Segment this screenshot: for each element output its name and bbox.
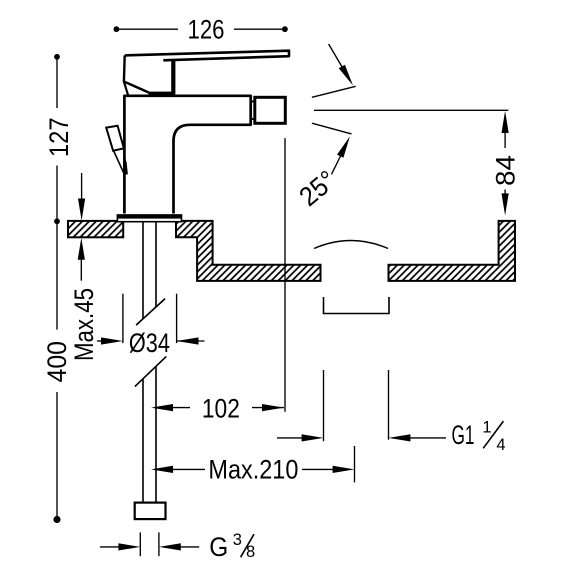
- dimension Max.210: [155, 446, 355, 483]
- svg-text:8: 8: [246, 543, 255, 561]
- svg-text:400: 400: [42, 341, 72, 383]
- right deck step profile hatched: [176, 221, 321, 281]
- svg-text:84: 84: [491, 155, 521, 186]
- arrow to lower spray line: [332, 153, 343, 174]
- right bowl band and column hatched: [389, 221, 516, 281]
- svg-text:1: 1: [482, 419, 491, 437]
- handle stem: [171, 61, 175, 94]
- break slash lower: [135, 356, 166, 386]
- base plate white: [117, 215, 181, 222]
- side lever alternate position: [106, 126, 124, 151]
- svg-text:Max.210: Max.210: [208, 455, 298, 485]
- handle joint bar: [149, 92, 176, 96]
- supply shank lines lower: [143, 367, 156, 503]
- spout connector: [251, 102, 255, 120]
- break slash upper: [136, 299, 165, 326]
- svg-text:Ø34: Ø34: [129, 328, 170, 358]
- arrow to upper spray line: [329, 44, 348, 77]
- dimension 102: [155, 138, 286, 412]
- spray line upper: [312, 86, 356, 97]
- svg-text:G1: G1: [452, 420, 475, 450]
- svg-text:102: 102: [202, 393, 240, 423]
- supply shank lines upper: [143, 222, 156, 319]
- spout aerator box: [255, 97, 285, 123]
- base plate dark bar: [117, 214, 182, 218]
- spray line horizontal: [314, 109, 508, 111]
- faucet body: [124, 96, 250, 214]
- dimension Max.45: [81, 173, 83, 200]
- lever handle top: [125, 51, 289, 61]
- handle base left edge: [124, 55, 149, 92]
- spray line lower: [312, 123, 352, 134]
- dimension 127: [56, 57, 58, 222]
- bowl arc: [314, 241, 388, 249]
- svg-text:126: 126: [188, 15, 225, 45]
- dimension 126: [116, 28, 285, 30]
- dimension G1 1/4: [277, 370, 446, 441]
- dimension G 3/8: [100, 532, 199, 556]
- svg-text:G: G: [209, 532, 228, 562]
- dimension dia34: [97, 294, 205, 343]
- dimension 400: [56, 221, 58, 516]
- svg-text:127: 127: [44, 118, 74, 158]
- side lever tip thick: [125, 162, 126, 175]
- svg-text:3: 3: [233, 531, 242, 549]
- dimension 84: [502, 111, 509, 133]
- side lever lines: [114, 149, 127, 175]
- svg-text:4: 4: [496, 436, 505, 454]
- handle base back edge: [124, 82, 128, 95]
- G3/8 connector box: [135, 503, 166, 519]
- drain U: [324, 297, 390, 314]
- svg-text:Max.45: Max.45: [69, 288, 99, 361]
- left deck band hatched: [68, 221, 123, 237]
